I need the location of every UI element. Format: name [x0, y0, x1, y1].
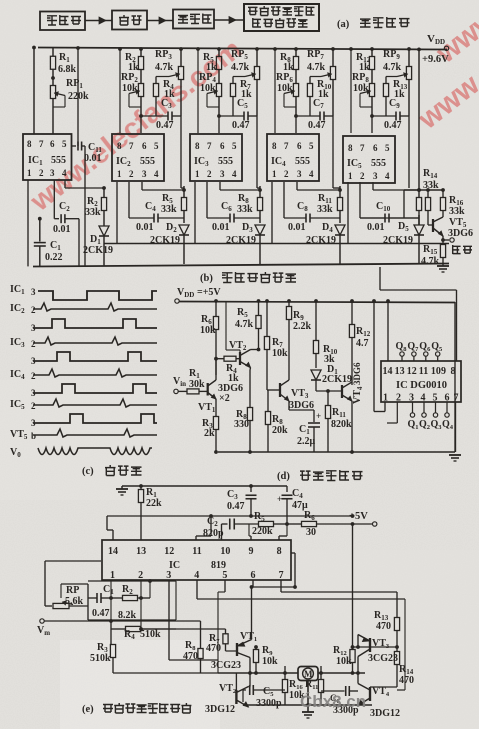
- wire arrow 3: [214, 19, 243, 21]
- svg-text:470: 470: [206, 643, 221, 654]
- watermark elecfans diagonal: [24, 0, 479, 218]
- svg-text:10k: 10k: [200, 325, 216, 336]
- svg-text:7: 7: [207, 141, 212, 151]
- wire VT4 emitter to rail: [351, 401, 353, 452]
- capacitor C10 0.01: [359, 182, 361, 218]
- transistor VT3 3DG6: [279, 383, 281, 397]
- wire stage1 out: [64, 180, 66, 188]
- svg-text:8.2k: 8.2k: [118, 610, 137, 621]
- svg-text:2CK19: 2CK19: [306, 235, 336, 246]
- svg-text:0.01: 0.01: [53, 224, 71, 235]
- transistor VT5 3DG6: [432, 219, 434, 232]
- svg-text:0.22: 0.22: [45, 252, 63, 263]
- svg-text:4: 4: [385, 171, 390, 181]
- svg-text:1: 1: [110, 570, 115, 581]
- svg-text:30k: 30k: [189, 379, 205, 390]
- wire RP loop left: [44, 561, 46, 606]
- wire bridge bottom rail: [243, 704, 372, 706]
- capacitor C5 0.47: [219, 115, 244, 117]
- resistor R1 22k servo: [140, 486, 142, 489]
- terminal Vin servo: [40, 619, 44, 623]
- resistor R2 1k: [140, 49, 142, 56]
- wire stage3 to IC: [197, 49, 199, 133]
- wire decoder to VT2 base: [225, 301, 227, 350]
- svg-text:10: 10: [220, 546, 230, 557]
- wire IC819 pin7 loop: [280, 580, 282, 592]
- resistor mid 33k: [427, 190, 429, 197]
- capacitor C1 2.2u electrolytic: [288, 401, 290, 410]
- svg-text:7: 7: [129, 141, 134, 151]
- svg-text:2CK19: 2CK19: [150, 235, 180, 246]
- svg-text:10k: 10k: [353, 83, 369, 94]
- svg-text:b: b: [31, 431, 36, 441]
- svg-text:3: 3: [31, 287, 36, 297]
- svg-text:33k: 33k: [317, 204, 333, 215]
- capacitor C3 0.47 servo: [250, 486, 252, 492]
- svg-text:13: 13: [136, 546, 146, 557]
- svg-text:1: 1: [348, 171, 353, 181]
- svg-text:2: 2: [284, 169, 289, 179]
- resistor R4 1k: [156, 76, 169, 78]
- svg-text:2CK19: 2CK19: [226, 235, 256, 246]
- wire base VT5: [428, 224, 433, 226]
- wire arrow 1: [85, 20, 112, 22]
- transistor VT1 3DG6 x2: [207, 383, 209, 396]
- block channel 信道: [112, 11, 147, 30]
- svg-text:5: 5: [62, 139, 67, 149]
- svg-text:3: 3: [297, 169, 302, 179]
- wire servo second rail: [107, 515, 353, 517]
- resistor R1 6.8k: [52, 48, 54, 57]
- svg-text:3DG12: 3DG12: [370, 708, 400, 719]
- svg-text:11: 11: [192, 546, 201, 557]
- wire IC819 pin8 right: [291, 552, 295, 554]
- svg-text:5: 5: [309, 141, 314, 151]
- IC U2 555 timer IC2: [112, 134, 164, 181]
- svg-text:1: 1: [272, 169, 277, 179]
- wire bottom rail encoder: [33, 264, 449, 267]
- resistor R5 1k: [218, 49, 220, 56]
- svg-text:0.47: 0.47: [156, 120, 174, 131]
- svg-text:0.47: 0.47: [232, 120, 250, 131]
- svg-text:20k: 20k: [272, 425, 288, 436]
- svg-text:2.2μ: 2.2μ: [297, 436, 316, 447]
- svg-text:330: 330: [234, 419, 249, 430]
- svg-text:(e): (e): [82, 704, 94, 715]
- svg-text:=+5V: =+5V: [197, 287, 221, 298]
- svg-text:(d): (d): [277, 471, 290, 482]
- IC U3 555 timer IC3: [190, 134, 242, 181]
- svg-text:7: 7: [360, 143, 365, 153]
- svg-text:6: 6: [297, 141, 302, 151]
- potentiometer RP6 10k: [293, 84, 298, 97]
- wire right outer loop: [397, 689, 405, 691]
- resistor R8 470 servo: [176, 620, 201, 622]
- svg-text:Ćbx8.cn: Ćbx8.cn: [300, 692, 366, 711]
- svg-text:IC DG0010: IC DG0010: [396, 380, 447, 391]
- transistor VT4 3DG12 right: [369, 687, 371, 701]
- resistor R6 10k: [215, 301, 217, 316]
- wire servo bottom rail: [113, 672, 218, 674]
- svg-text:13: 13: [395, 366, 405, 377]
- svg-text:10k: 10k: [200, 83, 216, 94]
- resistor R8 330: [249, 368, 252, 371]
- svg-text:2: 2: [396, 392, 401, 403]
- resistor R3 2k: [213, 417, 218, 430]
- resistor R7 470 servo: [140, 628, 226, 630]
- resistor R12 4.7k decoder: [351, 301, 353, 324]
- wire VT3 collector: [357, 657, 359, 674]
- svg-text:10k: 10k: [336, 656, 352, 667]
- ground decoder: [454, 302, 456, 452]
- svg-text:0.47: 0.47: [227, 501, 245, 512]
- wire C11 column from rail: [77, 48, 79, 146]
- svg-text:33k: 33k: [85, 207, 101, 218]
- svg-text:33k: 33k: [161, 204, 177, 215]
- svg-text:RP: RP: [66, 585, 79, 596]
- svg-text:12: 12: [164, 546, 174, 557]
- svg-text:33k: 33k: [237, 204, 253, 215]
- capacitor C3 0.47: [141, 115, 168, 117]
- potentiometer RP9 4.7k: [408, 49, 410, 66]
- wire bridge top: [223, 646, 235, 648]
- svg-text:1: 1: [195, 169, 200, 179]
- wire C11 drop to bottom rail: [84, 146, 86, 266]
- svg-text:(a): (a): [337, 19, 350, 30]
- svg-text:14: 14: [383, 366, 393, 377]
- svg-text:2: 2: [360, 171, 365, 181]
- resistor R10 10k servo: [284, 666, 286, 680]
- potentiometer RP2 10k: [138, 84, 143, 97]
- resistor R10 3k: [315, 301, 317, 340]
- svg-text:5: 5: [222, 570, 227, 581]
- terminal output 输出: [442, 236, 444, 240]
- wire motor row right: [318, 672, 365, 674]
- resistor R9 2.2k: [288, 301, 290, 306]
- resistor R8 33k: [259, 186, 261, 198]
- wire IC819 pin6 loop: [252, 580, 254, 587]
- svg-text:3DG12: 3DG12: [205, 704, 235, 715]
- svg-text:3: 3: [166, 570, 171, 581]
- svg-text:33k: 33k: [423, 180, 439, 191]
- capacitor C4 47u servo: [286, 486, 288, 492]
- svg-text:2.2k: 2.2k: [293, 321, 312, 332]
- wire pin4 drop: [168, 580, 170, 584]
- wire VT4 base connection: [370, 686, 397, 688]
- svg-text:4.7k: 4.7k: [155, 62, 174, 73]
- svg-text:7: 7: [454, 392, 459, 403]
- wire loop box servo: [88, 580, 176, 582]
- svg-text:2: 2: [39, 168, 44, 178]
- svg-text:555: 555: [140, 156, 155, 167]
- wire stage3 pins: [219, 182, 221, 190]
- capacitor C11 0.01: [72, 145, 77, 147]
- svg-text:4.7k: 4.7k: [235, 319, 254, 330]
- svg-text:2: 2: [207, 169, 212, 179]
- svg-text:2: 2: [31, 339, 36, 349]
- svg-text:30: 30: [306, 527, 316, 538]
- transistor VT1 3CG23: [226, 650, 238, 652]
- wire stage2 pins: [141, 182, 143, 190]
- IC U5 555 timer IC5: [343, 136, 395, 183]
- resistor R5 220k servo: [234, 523, 258, 525]
- IC U6 DG0010 decoder IC: [381, 361, 461, 402]
- svg-text:0.01: 0.01: [84, 153, 102, 164]
- svg-text:3CG23: 3CG23: [368, 653, 398, 664]
- wire right loops: [196, 580, 198, 599]
- svg-text:6.8k: 6.8k: [58, 64, 77, 75]
- ground bridge: [307, 680, 309, 712]
- diode D1 2CK19 decoder: [311, 370, 321, 380]
- diode D3 2CK19: [255, 225, 265, 235]
- svg-text:4: 4: [154, 169, 159, 179]
- svg-text:×2: ×2: [219, 393, 230, 404]
- svg-text:8: 8: [117, 141, 122, 151]
- wire VT1 emitter: [215, 399, 217, 417]
- wire VT1 emitter up: [251, 587, 253, 640]
- svg-text:2: 2: [31, 305, 36, 315]
- svg-text:510k: 510k: [90, 653, 111, 664]
- svg-text:470: 470: [399, 675, 414, 686]
- svg-text:1: 1: [383, 392, 388, 403]
- wire stage5 pins: [372, 182, 374, 190]
- svg-text:470: 470: [183, 651, 198, 662]
- wire pin5 drop: [224, 580, 226, 592]
- potentiometer RP8 10k: [369, 84, 374, 97]
- svg-text:220k: 220k: [252, 526, 273, 537]
- potentiometer RP4 10k: [216, 84, 221, 97]
- potentiometer RP1 220k: [52, 78, 54, 86]
- svg-text:8: 8: [195, 141, 200, 151]
- svg-text:555: 555: [295, 156, 310, 167]
- svg-text:3DG6: 3DG6: [352, 362, 362, 385]
- svg-text:8: 8: [272, 141, 277, 151]
- wire stage5 to IC: [350, 49, 352, 133]
- resistor R2 33k: [103, 188, 105, 197]
- outputs Q1 Q2 Q3 Q4: [410, 413, 414, 417]
- svg-text:10k: 10k: [272, 348, 288, 359]
- svg-text:2: 2: [31, 371, 36, 381]
- svg-text:5: 5: [385, 143, 390, 153]
- diode D5 2CK19: [414, 225, 424, 235]
- svg-text:11: 11: [419, 366, 428, 377]
- resistor R7 1k: [233, 76, 245, 78]
- svg-text:14: 14: [108, 546, 118, 557]
- resistor R4 1k horizontal: [216, 358, 224, 360]
- resistor R5 33k: [183, 186, 185, 198]
- svg-text:0.01: 0.01: [288, 222, 306, 233]
- svg-text:9: 9: [441, 366, 446, 377]
- wire +5V drop to bridge: [352, 524, 354, 647]
- svg-text:+: +: [277, 494, 282, 504]
- svg-text:7: 7: [279, 570, 284, 581]
- svg-text:5: 5: [154, 141, 159, 151]
- wire pin3 drop: [168, 580, 170, 660]
- block encoder 编码器: [40, 12, 85, 31]
- svg-text:0.01: 0.01: [367, 222, 385, 233]
- svg-text:3: 3: [409, 392, 414, 403]
- wire VT1 collector down: [249, 658, 251, 674]
- wire R9 to VT3 collector: [288, 330, 290, 380]
- resistor R3 510k servo: [110, 645, 115, 658]
- wire DG0010 supply pins: [373, 301, 375, 412]
- svg-text:4: 4: [309, 169, 314, 179]
- svg-text:510k: 510k: [140, 629, 161, 640]
- wire arrow 2: [147, 20, 173, 22]
- svg-text:4.7k: 4.7k: [421, 256, 440, 267]
- diode D2 2CK19: [179, 225, 189, 235]
- svg-text:5: 5: [433, 392, 438, 403]
- svg-text:3: 3: [142, 169, 147, 179]
- svg-text:22k: 22k: [146, 498, 162, 509]
- resistor R7 10k: [266, 301, 268, 336]
- resistor R13 1k: [386, 76, 397, 78]
- svg-text:6: 6: [251, 570, 256, 581]
- wire D1 to VT4 base: [316, 390, 342, 392]
- svg-text:10k: 10k: [277, 83, 293, 94]
- svg-text:(c): (c): [82, 466, 94, 477]
- wire motor row left: [218, 672, 298, 674]
- resistor R11 33k: [339, 186, 341, 198]
- block decoder 译码器: [173, 10, 214, 29]
- capacitor C2 0.01: [53, 180, 55, 219]
- svg-text:9: 9: [249, 546, 254, 557]
- diode D5 drop wires: [418, 215, 420, 225]
- resistor R5 4.7k decoder: [258, 301, 260, 315]
- svg-text:M: M: [304, 669, 313, 679]
- transistor VT3 3CG23 right: [369, 638, 371, 652]
- capacitor C4 0.01: [128, 182, 130, 218]
- svg-text:8: 8: [451, 366, 456, 377]
- svg-text:470: 470: [376, 621, 391, 632]
- resistor R8b 20k: [267, 390, 269, 411]
- svg-text:0.47: 0.47: [92, 608, 110, 619]
- wire stage4 to IC: [274, 49, 276, 133]
- svg-text:7: 7: [284, 141, 289, 151]
- svg-text:10k: 10k: [122, 83, 138, 94]
- svg-text:6: 6: [142, 141, 147, 151]
- svg-text:3: 3: [50, 168, 55, 178]
- wire encoder to decoder feed: [379, 267, 381, 290]
- svg-text:555: 555: [51, 155, 66, 166]
- wire IC819 top pins: [112, 530, 114, 540]
- svg-text:0.01: 0.01: [212, 222, 230, 233]
- svg-text:3CG23: 3CG23: [211, 660, 241, 671]
- wire stage4 pins: [296, 182, 298, 190]
- resistor R11 820k: [327, 391, 329, 405]
- resistor R10 1k: [310, 76, 321, 78]
- ground top servo: [116, 488, 128, 490]
- resistor R2 8.2k servo: [111, 597, 122, 599]
- svg-text:10: 10: [431, 366, 441, 377]
- capacitor C5 3300p: [248, 690, 250, 707]
- wire top rail VDD: [38, 48, 447, 50]
- svg-text:8: 8: [27, 139, 32, 149]
- diode D4 2CK19: [335, 225, 345, 235]
- IC U1 555 timer IC1: [23, 134, 72, 180]
- capacitor C8 0.01: [283, 182, 285, 218]
- svg-text:6: 6: [220, 141, 225, 151]
- wire VT1 collector: [215, 359, 217, 380]
- resistor R9 10k servo: [254, 645, 258, 649]
- potentiometer RP5 4.7k: [256, 49, 258, 66]
- svg-text:4: 4: [194, 570, 199, 581]
- wire stage2 to IC: [119, 49, 121, 133]
- wire bridge right top: [357, 635, 359, 648]
- svg-text:6: 6: [445, 392, 450, 403]
- svg-text:4.7k: 4.7k: [307, 62, 326, 73]
- capacitor C6 0.01: [206, 182, 208, 218]
- potentiometer RP3 4.7k: [180, 49, 182, 66]
- wire right rail R14 column: [418, 49, 420, 197]
- svg-text:1: 1: [117, 169, 122, 179]
- svg-text:0.47: 0.47: [308, 120, 326, 131]
- resistor R4 510k servo: [140, 580, 142, 629]
- svg-text:8: 8: [348, 143, 353, 153]
- potentiometer RP7 4.7k: [332, 49, 334, 66]
- resistor R16 33k: [442, 190, 444, 197]
- svg-text:7: 7: [39, 139, 44, 149]
- svg-text:3300p: 3300p: [256, 698, 282, 709]
- wire decoder bottom rail: [218, 451, 455, 453]
- wire servo top rail: [122, 485, 287, 487]
- ground output: [437, 265, 449, 267]
- svg-text:10k: 10k: [262, 656, 278, 667]
- svg-text:33k: 33k: [449, 206, 465, 217]
- svg-text:820k: 820k: [331, 419, 352, 430]
- resistor R15 4.7k: [442, 240, 444, 245]
- resistor R12 10k servo: [352, 647, 354, 650]
- svg-text:2CK19: 2CK19: [383, 235, 413, 246]
- wire long horizontal y244: [104, 243, 449, 245]
- wire VT4 collector: [357, 673, 359, 684]
- svg-text:2CK19: 2CK19: [83, 245, 113, 256]
- wire Vin servo: [44, 620, 176, 622]
- resistor R12 1k: [371, 49, 373, 56]
- svg-text:2: 2: [129, 169, 134, 179]
- svg-text:0.47: 0.47: [384, 120, 402, 131]
- svg-text:555: 555: [371, 158, 386, 169]
- svg-text:(b): (b): [200, 273, 213, 284]
- svg-text:4: 4: [421, 392, 426, 403]
- svg-text:+: +: [316, 411, 321, 421]
- diode D1 2CK19: [99, 226, 109, 236]
- svg-text:555: 555: [218, 156, 233, 167]
- resistor R14 470 servo: [396, 647, 398, 652]
- resistor R11 servo: [320, 666, 322, 680]
- IC U7 819 servo IC: [102, 540, 291, 580]
- svg-text:4.7k: 4.7k: [383, 62, 402, 73]
- transistor VT2 3DG12: [235, 673, 237, 690]
- svg-text:2: 2: [31, 401, 36, 411]
- svg-text:4: 4: [62, 168, 67, 178]
- svg-text:4: 4: [232, 169, 237, 179]
- svg-text:4.7: 4.7: [356, 338, 369, 349]
- resistor R14 33k: [416, 198, 421, 211]
- wire stage1 left: [33, 48, 35, 135]
- transistor VT4 3DG6 vertical labels: [341, 385, 343, 398]
- IC U4 555 timer IC4: [267, 134, 319, 181]
- wire IC1 pin1 column: [27, 180, 29, 266]
- svg-text:+9.6V: +9.6V: [422, 54, 449, 65]
- resistor R13 470 servo: [396, 592, 398, 617]
- svg-text:6: 6: [50, 139, 55, 149]
- wire bridge left node: [249, 673, 251, 687]
- wire VT3 base: [266, 383, 268, 390]
- svg-text:8: 8: [277, 546, 282, 557]
- svg-text:2k: 2k: [204, 428, 215, 439]
- capacitor C9 0.47: [372, 115, 396, 117]
